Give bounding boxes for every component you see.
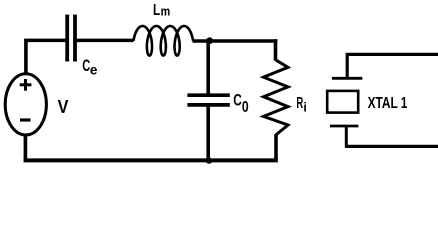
node (bottom junction) — [206, 157, 212, 163]
wire — [274, 135, 278, 161]
crystal XTAL 1 top plate — [332, 77, 362, 80]
svg-text:C: C — [233, 90, 242, 109]
inductor Lm — [134, 26, 194, 56]
resistor Ri — [264, 60, 289, 136]
svg-text:e: e — [90, 62, 98, 77]
wire — [24, 39, 67, 43]
capacitor C0 — [187, 41, 229, 161]
svg-text:L: L — [153, 2, 160, 19]
wire — [24, 42, 28, 75]
svg-text:V: V — [58, 96, 69, 117]
wire — [75, 39, 134, 43]
crystal XTAL 1 top stub — [346, 53, 349, 78]
svg-text:m: m — [161, 4, 171, 19]
svg-text:XTAL 1: XTAL 1 — [368, 95, 408, 112]
capacitor Ce — [67, 15, 75, 62]
svg-text:0: 0 — [242, 99, 249, 116]
svg-text:R: R — [296, 95, 303, 112]
crystal XTAL 1 bottom plate — [330, 125, 358, 128]
crystal XTAL 1 bottom stub — [345, 126, 348, 147]
source V minus sign — [20, 118, 31, 121]
wire — [24, 134, 28, 160]
source V plus sign — [20, 79, 32, 91]
source V — [5, 74, 46, 135]
crystal XTAL 1 top wire — [347, 53, 438, 56]
crystal XTAL 1 bottom wire — [345, 145, 438, 148]
crystal XTAL 1 body — [327, 91, 358, 113]
svg-text:i: i — [303, 101, 306, 115]
wire — [193, 39, 278, 43]
wire (bottom rail) — [24, 158, 278, 162]
wire — [274, 39, 278, 60]
node (top junction) — [206, 37, 213, 44]
